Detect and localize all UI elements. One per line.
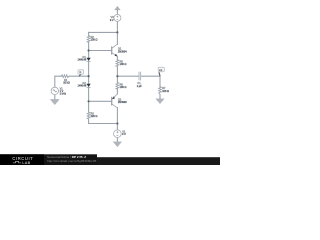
node input junction <box>88 75 90 77</box>
svg-text:100 Ω: 100 Ω <box>91 39 98 42</box>
wire D2 to R3 <box>88 87 90 112</box>
svg-text:1N4148: 1N4148 <box>78 59 87 62</box>
footer bar <box>0 154 220 165</box>
svg-text:220 Ω: 220 Ω <box>91 115 98 118</box>
svg-text:9 V: 9 V <box>122 133 126 136</box>
node Q2 base junction <box>88 100 90 102</box>
wire V1 to ground <box>54 95 56 100</box>
transistor Q1 (NPN) <box>112 44 117 56</box>
wire R1 to bias junction <box>69 75 89 77</box>
svg-text:10 kΩ: 10 kΩ <box>63 82 70 85</box>
wire R6 to Q2 emitter <box>116 89 118 94</box>
svg-text:2N3904: 2N3904 <box>118 51 127 54</box>
svg-text:2N3906: 2N3906 <box>118 101 127 104</box>
wire R2 to D1 <box>88 43 90 58</box>
wire Q2 collector down to bottom junction <box>116 108 118 124</box>
wire D1 to D2 <box>88 62 90 84</box>
svg-text:out: out <box>159 69 163 72</box>
wire Q1 emitter to R5 <box>116 56 118 60</box>
svg-text:1 µF: 1 µF <box>137 85 143 88</box>
resistor R5 <box>116 60 119 66</box>
wire output to C1 <box>117 75 138 77</box>
node flag out <box>158 67 164 76</box>
wire V3 arrow stem <box>116 10 118 15</box>
capacitor C1 <box>139 72 141 81</box>
node output junction <box>116 75 118 77</box>
transistor Q2 (PNP) <box>112 94 117 107</box>
wire R3 to bottom rail corner <box>89 119 118 124</box>
svg-text:http://circuitlab.com/c/5g9536: http://circuitlab.com/c/5g95366bc95 <box>47 159 97 163</box>
ground under R7 <box>156 99 165 104</box>
wire Q2 base <box>89 100 112 102</box>
wire Q1 collector vertical <box>116 32 118 44</box>
source V1 (sine input) <box>51 87 58 94</box>
wire R7 to ground <box>159 95 161 99</box>
resistor R6 <box>116 82 119 89</box>
svg-text:100 Ω: 100 Ω <box>162 90 169 93</box>
resistor R2 <box>87 36 90 43</box>
resistor R3 <box>87 112 90 119</box>
wire V2 to ground <box>116 138 118 142</box>
node Q1 base junction <box>88 49 90 51</box>
node flag in <box>78 70 84 76</box>
ground under V2 <box>113 142 122 147</box>
resistor R7 <box>159 87 162 95</box>
source V2 (bottom supply) <box>114 130 122 138</box>
svg-text:100 Ω: 100 Ω <box>120 86 127 89</box>
svg-text:100 Ω: 100 Ω <box>120 63 127 66</box>
wire output junction to R6 <box>116 76 118 82</box>
wire Q1 base <box>89 50 112 52</box>
power arrow (flipped ground) above V3 <box>115 6 121 10</box>
footer logo wave + LAB <box>13 161 21 163</box>
svg-text:9 V: 9 V <box>110 19 114 22</box>
svg-text:1 kHz: 1 kHz <box>60 93 67 96</box>
node rail junction <box>116 31 118 33</box>
source V3 (top supply) <box>114 14 121 21</box>
svg-text:LAB: LAB <box>22 161 30 165</box>
wire bottom junction to V2 <box>116 124 118 130</box>
diode D1 <box>78 55 91 61</box>
wire rail corner down to R2 <box>88 32 90 35</box>
wire V3 to rail <box>116 21 118 32</box>
wire R5 to output junction <box>116 66 118 76</box>
node bottom junction <box>116 122 118 124</box>
junction dots <box>88 31 119 124</box>
resistor R1 (horizontal) <box>62 75 70 78</box>
diode D2 <box>78 81 91 87</box>
wire top rail <box>89 31 118 33</box>
wire C1 to out corner, down to R7 <box>141 76 160 86</box>
wire V1 top to input <box>55 76 62 87</box>
svg-text:1N4148: 1N4148 <box>78 85 87 88</box>
ground under V1 <box>50 99 59 104</box>
